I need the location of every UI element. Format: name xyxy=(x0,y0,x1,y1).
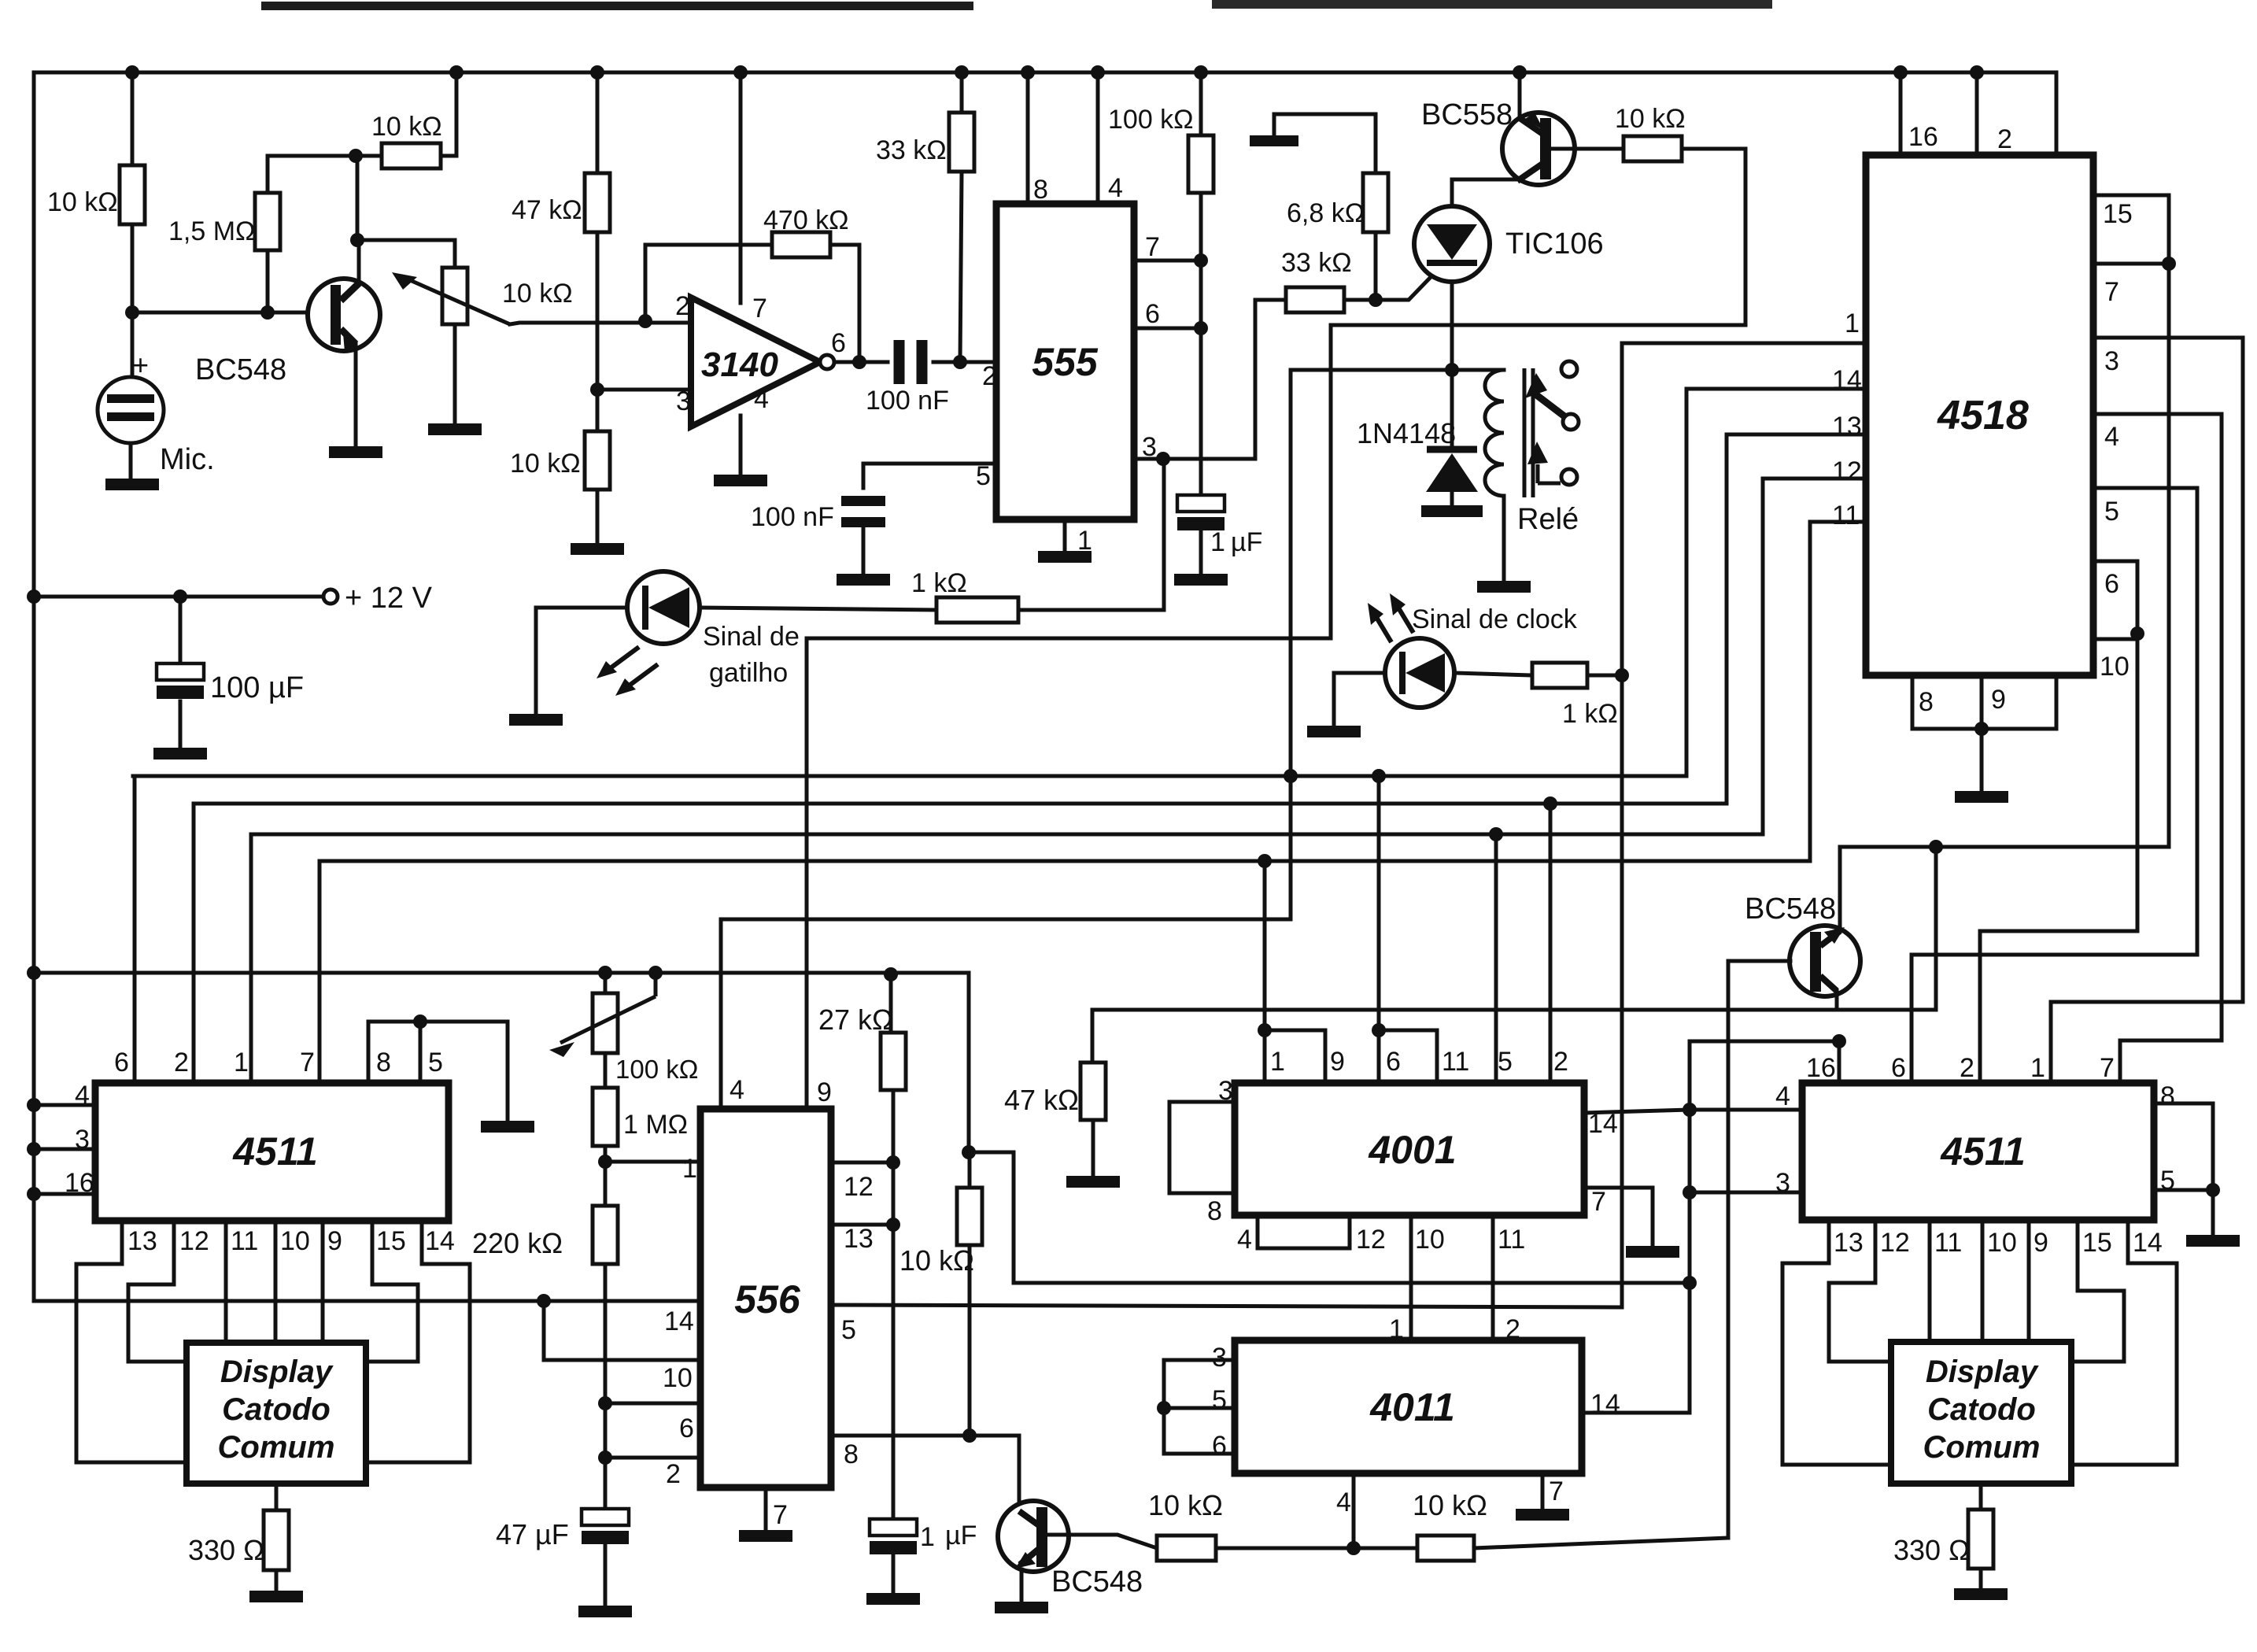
svg-text:1: 1 xyxy=(920,1522,935,1552)
svg-text:1: 1 xyxy=(2030,1053,2045,1083)
svg-text:555: 555 xyxy=(1032,340,1099,384)
wire Q2 base to R11 xyxy=(1551,147,1623,151)
wire L4511 pin4 xyxy=(34,1103,95,1107)
wire R16 through pins 12-13 to C6 xyxy=(892,1090,896,1519)
wire L4511 pin9 to display xyxy=(321,1221,325,1343)
svg-text:5: 5 xyxy=(976,461,991,491)
node bus4 4001 xyxy=(1258,854,1272,868)
capacitor C4 100uF xyxy=(157,663,204,680)
svg-text:470 kΩ: 470 kΩ xyxy=(763,205,849,235)
svg-text:+ 12 V: + 12 V xyxy=(345,582,433,615)
resistor R11 10k xyxy=(1623,136,1682,161)
wire P2 to R14 xyxy=(604,1053,608,1088)
wire 4518 pin5 to 4511 pin6 xyxy=(1912,488,2197,1083)
wire bus to P2 xyxy=(604,973,608,993)
svg-text:220 kΩ: 220 kΩ xyxy=(472,1227,563,1259)
node pins 15-7 xyxy=(2162,257,2176,271)
node gate xyxy=(1369,293,1383,307)
IC U3 4518 xyxy=(1866,155,2093,675)
svg-text:Display: Display xyxy=(1926,1354,2039,1389)
ground D3 xyxy=(1307,726,1361,737)
wire divider to R5 xyxy=(596,390,600,431)
node +12V xyxy=(27,589,41,604)
svg-text:4: 4 xyxy=(754,384,769,414)
node 4011 pin4 xyxy=(1346,1541,1361,1555)
wire bus1 to 4001 pins 6-11 xyxy=(1377,776,1381,1030)
node rail R8 xyxy=(1194,65,1208,79)
node rail R4 xyxy=(590,65,604,79)
IC U8 4511 right xyxy=(1802,1083,2154,1220)
LED D3 Sinal de clock xyxy=(1385,638,1454,708)
node R3 left xyxy=(349,149,363,163)
svg-text:6: 6 xyxy=(1145,299,1160,329)
ground 556 xyxy=(739,1530,792,1542)
wire 555 pin5 to C2 xyxy=(863,464,996,488)
wire R1 to mic node xyxy=(131,224,135,312)
svg-text:1 kΩ: 1 kΩ xyxy=(1562,699,1618,729)
wire 556 pin13 xyxy=(831,1223,893,1227)
svg-text:Catodo: Catodo xyxy=(222,1392,331,1427)
wire 4001 pins1-9 bracket xyxy=(1265,1030,1325,1083)
svg-text:7: 7 xyxy=(1145,232,1160,262)
node pin3 xyxy=(1156,452,1170,466)
output circle U1 xyxy=(820,355,834,369)
node border pin3 xyxy=(27,1142,41,1156)
svg-text:1 kΩ: 1 kΩ xyxy=(911,568,967,598)
svg-text:1: 1 xyxy=(1389,1314,1404,1344)
wire Q4 emitter to ground xyxy=(1020,1569,1024,1602)
wire R4511 pin16 stub xyxy=(1838,1041,1841,1083)
svg-text:4: 4 xyxy=(1237,1225,1252,1255)
svg-text:10: 10 xyxy=(1987,1228,2017,1258)
wire divider to U1 pin3 xyxy=(597,388,691,392)
node rail U1 supply xyxy=(733,65,748,79)
wire pins8-5 to ground xyxy=(420,1022,508,1121)
wire node to R15 xyxy=(604,1162,608,1206)
wire +12V top rail xyxy=(34,71,2056,75)
svg-text:47 µF: 47 µF xyxy=(496,1518,569,1550)
svg-text:556: 556 xyxy=(734,1277,801,1321)
svg-text:10 kΩ: 10 kΩ xyxy=(1148,1489,1223,1521)
node top rail / R1 xyxy=(125,65,139,79)
wire 556 pin10 bracket xyxy=(544,1301,700,1360)
wire bus3 to 4001 pin5 xyxy=(1494,834,1498,1083)
svg-text:330 Ω: 330 Ω xyxy=(188,1534,264,1566)
svg-text:6: 6 xyxy=(1212,1431,1227,1461)
wire R5 to ground xyxy=(596,490,600,543)
node 556 pin2 xyxy=(598,1451,612,1465)
svg-text:4: 4 xyxy=(730,1075,744,1105)
ground mic xyxy=(105,479,159,490)
ground R4511 xyxy=(2186,1235,2240,1247)
wire 4518 pin10 xyxy=(2093,638,2137,641)
IC U7 4511 left xyxy=(95,1083,449,1221)
wire 556 pin4 riser xyxy=(719,919,723,1109)
wire 4011 pin5 xyxy=(1164,1406,1235,1410)
svg-text:7: 7 xyxy=(752,294,767,323)
wire 4011 pin4 down xyxy=(1352,1473,1356,1548)
ground P1 xyxy=(428,423,482,435)
svg-text:4001: 4001 xyxy=(1368,1128,1456,1172)
node pin13 R16 xyxy=(886,1218,900,1232)
svg-text:14: 14 xyxy=(1588,1109,1618,1139)
wire mic to ground xyxy=(129,443,133,479)
node L4511 pins8-5 xyxy=(413,1014,427,1029)
node out feedback xyxy=(852,355,866,369)
wire into 555 pin2 xyxy=(960,360,996,364)
svg-text:2: 2 xyxy=(1553,1047,1568,1077)
svg-text:100 kΩ: 100 kΩ xyxy=(1108,105,1194,135)
node pin8 R17 xyxy=(962,1428,977,1443)
svg-text:Relé: Relé xyxy=(1517,503,1579,536)
svg-text:8: 8 xyxy=(1919,687,1934,717)
wire 4518 pin14 bus1 xyxy=(133,389,1866,776)
ground bar R10 xyxy=(1250,135,1298,146)
node pin6 R8 xyxy=(1194,321,1208,335)
svg-text:9: 9 xyxy=(1330,1047,1345,1077)
wire +12V xyxy=(34,595,323,599)
transistor Q2 BC558 xyxy=(1502,113,1575,185)
svg-text:16: 16 xyxy=(1908,122,1938,152)
wire L4511 pin13 to display xyxy=(76,1221,187,1462)
display right Display Catodo Comum xyxy=(1891,1342,2071,1484)
svg-text:TIC106: TIC106 xyxy=(1505,227,1604,261)
wire pin3 riser to R9 xyxy=(1255,300,1286,459)
svg-text:11: 11 xyxy=(231,1226,258,1256)
wire L4511 pin2 stub xyxy=(192,804,196,1084)
wire L4511 pin1 stub xyxy=(249,834,253,1084)
svg-text:4: 4 xyxy=(1108,173,1123,203)
wire rail to R7 xyxy=(960,72,964,113)
ground 4518 xyxy=(1955,791,2008,803)
wire R11 to 556 pin9 xyxy=(807,149,1745,1109)
node collector net branch xyxy=(1929,840,1943,854)
wire L4511 pins8-5 bracket xyxy=(368,1022,420,1084)
capacitor C5 47uF xyxy=(582,1509,629,1525)
node trimmer wiper xyxy=(648,966,663,980)
resistor R3 10k horizontal xyxy=(382,143,441,168)
wire relay coil to ground xyxy=(1502,496,1506,581)
IC U4 556 xyxy=(700,1109,831,1488)
node rail R3 xyxy=(449,65,464,79)
wire 555 pin6 xyxy=(1134,327,1201,331)
resistor R10 6.8k xyxy=(1363,173,1388,232)
svg-text:7: 7 xyxy=(2100,1053,2115,1083)
wire L4511 pin11 to display xyxy=(224,1221,228,1343)
wire to 556 pin1 xyxy=(605,1160,700,1164)
node feedback / pin2 xyxy=(638,314,652,328)
svg-text:100 nF: 100 nF xyxy=(751,502,834,532)
wire C6 to ground xyxy=(892,1555,896,1593)
wire R20 to Q5 base riser xyxy=(1474,1538,1728,1548)
capacitor C1 100nF xyxy=(894,340,905,384)
svg-text:330 Ω: 330 Ω xyxy=(1893,1534,1970,1566)
resistor R21 330 xyxy=(264,1510,289,1570)
svg-text:8: 8 xyxy=(2160,1081,2175,1111)
node base / R2 xyxy=(260,305,275,320)
wire D2 anode to R12 xyxy=(700,608,936,610)
svg-text:3140: 3140 xyxy=(701,346,778,384)
wire 4518 pin4 to 4511 pin7 xyxy=(2093,414,2222,1083)
wire R4511 pin12 to display xyxy=(1829,1220,1891,1362)
svg-text:Sinal de: Sinal de xyxy=(703,622,800,652)
svg-text:1: 1 xyxy=(1270,1047,1285,1077)
wire rail to 4518 pin2 xyxy=(1975,72,1979,155)
svg-text:1: 1 xyxy=(1845,309,1860,338)
relay coil Rele xyxy=(1452,368,1504,372)
svg-text:4: 4 xyxy=(1775,1081,1790,1111)
node collector xyxy=(350,233,364,247)
svg-text:BC548: BC548 xyxy=(1745,893,1836,926)
ground C2 xyxy=(837,574,890,586)
node 556 pin6 xyxy=(598,1396,612,1410)
wire pins15-7 down to collector net xyxy=(1840,264,2169,847)
wire Q4 base riser xyxy=(1727,961,1731,1538)
wire to C4 xyxy=(179,597,183,663)
resistor R14 1M xyxy=(593,1088,618,1146)
wire 556 pin2 xyxy=(605,1456,700,1460)
wire L4511 pin7 stub xyxy=(318,861,322,1084)
wire 555 pin3 out xyxy=(1134,457,1255,461)
wire bus4 to 4001 pin1 xyxy=(1263,861,1267,1030)
wire R12 to 555 pin3 xyxy=(1018,459,1164,610)
node power to 4511-right xyxy=(1683,1276,1697,1290)
wire R4511 pin15 to display xyxy=(2071,1220,2124,1362)
node clock LED tap xyxy=(1615,668,1629,682)
wire TIC106 anode to Q2 collector xyxy=(1452,179,1516,206)
ground 555 xyxy=(1038,551,1092,563)
ground 4011 xyxy=(1516,1509,1569,1521)
svg-text:7: 7 xyxy=(1591,1187,1606,1217)
svg-text:9: 9 xyxy=(2034,1228,2048,1258)
svg-text:5: 5 xyxy=(841,1315,856,1345)
node rail 4518 pin2 xyxy=(1970,65,1984,79)
wire C3 to ground xyxy=(1199,529,1203,574)
node rail 556 pin14 xyxy=(537,1294,551,1308)
svg-text:12: 12 xyxy=(844,1172,874,1202)
svg-text:3: 3 xyxy=(1775,1168,1790,1198)
node bus1 relay riser xyxy=(1284,769,1298,783)
wire display to R21 xyxy=(275,1484,279,1510)
wire bus to R16 xyxy=(889,974,893,1033)
wire R2 top to R3 node xyxy=(268,156,356,193)
svg-text:10: 10 xyxy=(1415,1225,1445,1255)
wire 4001 pin14 to 4511 pin4 xyxy=(1584,1110,1802,1113)
wire 555 pin7 xyxy=(1134,259,1201,263)
svg-text:8: 8 xyxy=(376,1048,391,1077)
relay contacts xyxy=(1561,361,1577,377)
node 4511 pin16 xyxy=(1832,1034,1846,1048)
wire L4511 pin10 to display xyxy=(274,1221,278,1343)
svg-text:4011: 4011 xyxy=(1369,1385,1455,1429)
node 556 pin1 xyxy=(598,1155,612,1169)
wire 4011 pins3-6 bracket xyxy=(1164,1360,1235,1454)
wire R3 to rail xyxy=(441,72,456,156)
node 4001 pin6 xyxy=(1372,1023,1386,1037)
svg-text:3: 3 xyxy=(2104,346,2119,376)
svg-text:14: 14 xyxy=(664,1306,694,1336)
wire 4011 pin7 to ground xyxy=(1541,1473,1545,1509)
wire R7 to pin2 node xyxy=(960,172,962,362)
wire 4518 pin7 xyxy=(2093,262,2169,266)
resistor R9 33k xyxy=(1286,287,1344,312)
wire rail to 4518 pin16 xyxy=(1899,72,1903,155)
capacitor C3 1uF xyxy=(1177,495,1225,512)
svg-text:100 µF: 100 µF xyxy=(210,671,304,704)
ground D1 xyxy=(1421,505,1483,517)
node rail 555 pin8 xyxy=(1021,65,1035,79)
node C4 xyxy=(173,589,187,604)
wire C4 to ground xyxy=(179,701,183,748)
svg-text:11: 11 xyxy=(1498,1225,1525,1255)
node pin12 R16 xyxy=(886,1155,900,1170)
wire 4518 pin13 bus2 xyxy=(194,434,1866,804)
svg-text:100 nF: 100 nF xyxy=(866,386,949,416)
svg-text:9: 9 xyxy=(817,1077,832,1107)
wire R4511 pin10 to display xyxy=(1981,1220,1985,1342)
wire rail corner into 4518 xyxy=(2055,72,2059,155)
ground U1 xyxy=(714,475,767,486)
wire bus2 to 4001 pin2 xyxy=(1549,804,1553,1083)
svg-text:Catodo: Catodo xyxy=(1927,1392,2036,1427)
wire D3 anode to R13 xyxy=(1454,673,1532,675)
svg-text:12: 12 xyxy=(1832,456,1862,486)
svg-text:6: 6 xyxy=(114,1048,129,1077)
capacitor C6 1uF xyxy=(870,1519,917,1536)
node border pin4 xyxy=(27,1098,41,1112)
node rail R7 xyxy=(955,65,969,79)
wire 4001 pin7 to ground xyxy=(1584,1188,1653,1246)
transistor Q5 BC548 xyxy=(1790,926,1860,996)
svg-text:16: 16 xyxy=(1806,1053,1836,1083)
svg-text:7: 7 xyxy=(300,1048,315,1077)
svg-text:9: 9 xyxy=(1991,685,2006,715)
svg-text:Mic.: Mic. xyxy=(160,443,215,476)
svg-text:8: 8 xyxy=(1033,175,1048,205)
wire left border +12V feed xyxy=(34,72,699,1301)
wire R4511 pin5 xyxy=(2154,1188,2213,1192)
wire R4511 pin11 to display xyxy=(1928,1220,1932,1342)
svg-text:2: 2 xyxy=(1960,1053,1974,1083)
node rail Q2 emitter xyxy=(1513,65,1527,79)
wire L4511 pin5 stub xyxy=(419,1022,423,1084)
ground R22 xyxy=(1954,1588,2008,1600)
wire 4518 pin6 xyxy=(2093,561,2137,627)
resistor R22 330 xyxy=(1968,1510,1993,1569)
trimmer P1 10k xyxy=(442,268,467,324)
node pin2 / R7 xyxy=(953,355,967,369)
wire U1 out xyxy=(834,360,859,364)
ground R21 xyxy=(249,1591,303,1602)
node 4011 bracket xyxy=(1157,1401,1171,1415)
wire pins6-10 to 4511 pin2 xyxy=(1980,634,2137,1083)
svg-text:6: 6 xyxy=(679,1414,694,1443)
wire rail to 555 pin8 xyxy=(1026,72,1030,204)
svg-text:33 kΩ: 33 kΩ xyxy=(876,135,947,165)
svg-text:12: 12 xyxy=(1356,1225,1386,1255)
svg-text:7: 7 xyxy=(1549,1476,1564,1506)
wire node to mic xyxy=(131,312,135,379)
ground Q1 emitter xyxy=(329,446,382,458)
wire power bus mid xyxy=(34,973,969,1152)
wire R13 to clock net xyxy=(1587,674,1622,678)
node pins 8-9 xyxy=(1974,722,1989,736)
node bus3 4001 xyxy=(1489,827,1503,841)
svg-text:2: 2 xyxy=(174,1048,189,1077)
wire pins8-5 to ground xyxy=(2211,1190,2215,1235)
svg-text:27 kΩ: 27 kΩ xyxy=(818,1003,893,1036)
svg-text:14: 14 xyxy=(2133,1228,2163,1258)
svg-text:1: 1 xyxy=(682,1154,697,1184)
wire R21 to ground xyxy=(275,1570,279,1591)
wire C1 to 555 pin2 xyxy=(933,360,960,364)
wire 556 pin7 to ground xyxy=(764,1488,768,1530)
resistor R7 33k xyxy=(949,113,974,172)
wire L4511 pin14 to display xyxy=(366,1221,470,1462)
wire rail to R4 xyxy=(596,72,600,173)
wire 556 pin6 xyxy=(605,1402,700,1406)
svg-text:10 kΩ: 10 kΩ xyxy=(899,1244,974,1277)
svg-text:5: 5 xyxy=(1498,1047,1513,1077)
svg-text:Comum: Comum xyxy=(1923,1430,2041,1465)
wire Q5 emitter xyxy=(1835,991,1839,1010)
svg-text:Display: Display xyxy=(220,1354,334,1389)
wire 556 pin12 xyxy=(831,1161,893,1165)
thyristor TIC106 xyxy=(1414,206,1490,282)
wire rail to R8 xyxy=(1199,72,1203,135)
wire rail to U1 pin7 xyxy=(739,72,743,303)
svg-text:10 kΩ: 10 kΩ xyxy=(1615,104,1686,134)
microphone Mic. xyxy=(98,377,164,443)
IC U5 4001 xyxy=(1235,1083,1584,1215)
wire power corner to 4011 pin14 xyxy=(1582,1283,1690,1413)
wire rail to 555 pin4 xyxy=(1096,72,1100,204)
wire P1 wiper to op-amp pin2 xyxy=(510,323,645,324)
svg-text:4511: 4511 xyxy=(1940,1129,2026,1173)
display left Display Catodo Comum xyxy=(187,1343,366,1484)
svg-text:BC548: BC548 xyxy=(1051,1565,1143,1598)
wire D1 to ground xyxy=(1450,492,1454,505)
svg-text:10 kΩ: 10 kΩ xyxy=(510,449,581,479)
svg-text:10 kΩ: 10 kΩ xyxy=(502,279,573,309)
wire 4511 pin3 row xyxy=(1690,1191,1802,1195)
resistor R19 10k xyxy=(1157,1536,1216,1561)
wire Q5 collector to net xyxy=(1838,847,1842,931)
wire out to C1 xyxy=(859,360,888,364)
node 4511 pin4 row xyxy=(1683,1103,1697,1117)
ground D2 xyxy=(509,714,563,726)
svg-text:BC558: BC558 xyxy=(1421,98,1513,131)
svg-text:4511: 4511 xyxy=(232,1129,318,1173)
svg-text:3: 3 xyxy=(676,386,691,416)
svg-text:33 kΩ: 33 kΩ xyxy=(1281,248,1352,278)
node border bus xyxy=(27,966,41,980)
wire R4 to divider node xyxy=(596,232,600,390)
svg-text:13: 13 xyxy=(127,1226,157,1256)
svg-text:11: 11 xyxy=(1442,1047,1469,1077)
wire R10 top to bar xyxy=(1274,114,1376,173)
wire R8 to C3 xyxy=(1199,193,1203,495)
svg-text:gatilho: gatilho xyxy=(709,658,788,688)
svg-text:+: + xyxy=(132,349,149,381)
node rail 555 pin4 xyxy=(1091,65,1105,79)
svg-text:4: 4 xyxy=(1336,1488,1351,1517)
svg-text:13: 13 xyxy=(1834,1228,1864,1258)
LED D2 arrows xyxy=(603,647,639,674)
svg-text:10: 10 xyxy=(2100,652,2130,682)
wire collector to R3 node xyxy=(356,156,360,240)
capacitor C2 100nF xyxy=(841,496,885,506)
